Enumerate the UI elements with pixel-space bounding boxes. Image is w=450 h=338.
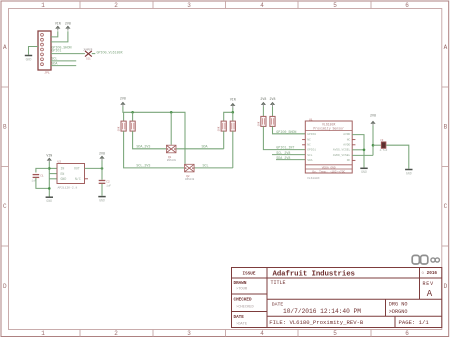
- svg-text:SCL_2V8: SCL_2V8: [276, 152, 290, 156]
- junction: [363, 149, 366, 152]
- svg-text:2: 2: [114, 330, 118, 337]
- svg-text:SCL: SCL: [203, 165, 209, 169]
- svg-text:Proximity Sensor: Proximity Sensor: [313, 126, 344, 130]
- svg-text:6: 6: [405, 2, 409, 9]
- svg-text:1: 1: [41, 330, 45, 337]
- supply 2V8: [370, 114, 376, 126]
- svg-text:SDA_3V3: SDA_3V3: [136, 146, 150, 150]
- wire AVSS pin: [352, 149, 364, 151]
- wire jumper net right: [92, 53, 96, 55]
- svg-text:AVSS_VCSEL: AVSS_VCSEL: [333, 149, 351, 152]
- connector JP1 box: [38, 31, 51, 74]
- wire R1 top stem: [123, 112, 125, 121]
- svg-text:SDA_2V8: SDA_2V8: [276, 157, 290, 161]
- supply VIN: [46, 153, 52, 162]
- svg-text:2V8: 2V8: [65, 21, 71, 25]
- svg-text:Adafruit Industries: Adafruit Industries: [273, 270, 355, 278]
- svg-text:C1: C1: [40, 175, 44, 178]
- svg-text:VIN: VIN: [46, 153, 52, 157]
- svg-text:C: C: [3, 203, 7, 210]
- svg-text:FILE: VL6180_Proximity_REV-B: FILE: VL6180_Proximity_REV-B: [269, 319, 364, 326]
- wire 2V8 stem: [372, 126, 374, 156]
- svg-text:2V8: 2V8: [370, 114, 376, 118]
- wire cap rail left: [373, 144, 381, 146]
- svg-text:10K: 10K: [257, 121, 260, 126]
- title block: [232, 255, 442, 327]
- supply VIN: [55, 21, 61, 30]
- svg-text:EN: EN: [61, 172, 65, 176]
- wire SCL net: [51, 60, 76, 62]
- svg-text:SDA: SDA: [307, 159, 312, 162]
- svg-text:>CHECKED: >CHECKED: [236, 304, 254, 309]
- wire GPIO1 net: [263, 126, 305, 149]
- transistor Q1: [166, 145, 176, 162]
- wire pin3 to ground: [29, 47, 39, 55]
- wire R2 top stem: [132, 112, 134, 121]
- wire C2 bottom: [101, 184, 103, 196]
- svg-text:GPIO0: GPIO0: [307, 133, 316, 136]
- svg-text:1: 1: [41, 2, 45, 9]
- junction: [372, 144, 375, 147]
- svg-text:VIN: VIN: [230, 98, 236, 102]
- svg-text:2: 2: [114, 2, 118, 9]
- svg-text:AVDD_VCSEL: AVDD_VCSEL: [333, 154, 351, 157]
- svg-text:PAGE: 1/1: PAGE: 1/1: [399, 319, 430, 326]
- svg-text:GPIO1_INT: GPIO1_INT: [276, 147, 294, 151]
- supply 2V8: [120, 96, 126, 106]
- wire SDA_3V3 net: [133, 131, 166, 149]
- solder jumper SJ1: [85, 51, 92, 61]
- ground: [405, 170, 412, 176]
- svg-text:GND: GND: [361, 170, 367, 174]
- svg-text:GND: GND: [99, 199, 105, 203]
- pin stub N/C: [85, 178, 89, 180]
- logo OO-infinity: [412, 255, 439, 264]
- svg-text:NC: NC: [347, 138, 351, 141]
- wire AVDD_VCSEL pin to 2V8 stem: [352, 154, 373, 156]
- svg-text:4: 4: [260, 2, 264, 9]
- resistor R3: [257, 116, 266, 126]
- svg-text:5: 5: [333, 330, 337, 337]
- capacitor C3: [380, 139, 388, 152]
- svg-text:GPIO0_VL6180X: GPIO0_VL6180X: [97, 51, 123, 55]
- svg-text:U2: U2: [58, 160, 62, 163]
- regulator U2: [57, 160, 88, 189]
- svg-text:TITLE: TITLE: [271, 280, 286, 286]
- wire IN pin: [49, 167, 57, 169]
- svg-text:DATE: DATE: [272, 301, 284, 307]
- junction: [232, 111, 235, 114]
- svg-text:SCL: SCL: [307, 154, 312, 157]
- svg-text:A: A: [427, 289, 433, 299]
- svg-text:SDA: SDA: [51, 63, 57, 67]
- svg-text:GPIO0_SHDN: GPIO0_SHDN: [276, 131, 296, 135]
- svg-text:SDA: SDA: [202, 146, 208, 150]
- svg-text:10K: 10K: [218, 126, 221, 131]
- svg-text:3: 3: [187, 2, 191, 9]
- supply 2V8: [99, 151, 105, 160]
- svg-text:IN: IN: [61, 167, 65, 171]
- svg-text:2V8: 2V8: [270, 97, 276, 101]
- wire 2V8 rail: [123, 107, 185, 164]
- svg-text:CHECKED: CHECKED: [234, 297, 252, 302]
- svg-text:A: A: [3, 44, 7, 51]
- svg-text:GPIO1: GPIO1: [51, 50, 61, 54]
- svg-text:5: 5: [333, 2, 337, 9]
- ground: [98, 197, 105, 203]
- svg-text:A: A: [444, 44, 448, 51]
- junction: [170, 111, 173, 114]
- capacitor C1: [32, 175, 44, 183]
- sensor U1: [302, 119, 355, 180]
- resistor R5: [218, 121, 227, 131]
- svg-text:1uF: 1uF: [106, 184, 111, 187]
- supply 2V8 (R4): [270, 97, 276, 107]
- svg-text:SCL: SCL: [51, 58, 57, 62]
- wire pin2 to 2V8: [51, 31, 68, 42]
- svg-text:VIN: VIN: [55, 21, 61, 25]
- junction: [48, 167, 51, 170]
- wire SCL net: [195, 167, 233, 169]
- ground: [46, 197, 53, 203]
- wire C1 bottom: [36, 178, 49, 189]
- wire VIN vertical: [48, 162, 50, 196]
- svg-text:C3: C3: [380, 139, 384, 142]
- svg-text:VL6180X: VL6180X: [307, 177, 320, 180]
- capacitor C2: [99, 180, 112, 187]
- supply 2V8 (R3): [260, 97, 266, 107]
- pin stubs right: [302, 140, 355, 161]
- wire GND pin: [49, 178, 57, 180]
- svg-text:>DATE: >DATE: [236, 322, 248, 327]
- supply VIN: [230, 98, 236, 108]
- wire R4 top stem: [272, 107, 274, 117]
- wire R5 bottom stem: [223, 131, 225, 149]
- wire VIN rail: [224, 108, 233, 121]
- svg-text:DATE: DATE: [234, 315, 245, 320]
- wire GPIO0 net: [273, 126, 306, 133]
- resistor R2: [130, 121, 135, 131]
- svg-text:AVDD: AVDD: [343, 144, 350, 147]
- svg-text:BSS138: BSS138: [185, 178, 195, 181]
- svg-text:C2: C2: [106, 180, 110, 183]
- svg-text:GND: GND: [406, 171, 412, 175]
- wire SCL net: [272, 154, 305, 156]
- transistor Q2: [185, 164, 195, 181]
- svg-text:N/C: N/C: [75, 177, 81, 181]
- wire SDA net: [51, 65, 76, 67]
- svg-text:2V8: 2V8: [260, 97, 266, 101]
- svg-text:B: B: [3, 124, 7, 131]
- wire cap rail right to ground: [386, 145, 409, 169]
- wire AVDD pin1: [352, 135, 364, 168]
- svg-text:D: D: [3, 283, 7, 290]
- svg-text:>DRGNO: >DRGNO: [389, 309, 408, 315]
- svg-text:SJ1: SJ1: [86, 58, 91, 61]
- svg-text:GND: GND: [46, 199, 52, 203]
- svg-text:GND: GND: [26, 57, 32, 61]
- svg-text:GND: GND: [61, 177, 67, 181]
- svg-text:○ 2016: ○ 2016: [422, 271, 438, 276]
- wire SDA net: [276, 159, 305, 161]
- svg-text:4: 4: [260, 330, 264, 337]
- svg-text:4.7uF: 4.7uF: [380, 149, 388, 152]
- svg-text:AP2112K-2.8: AP2112K-2.8: [58, 187, 78, 190]
- wire C1 top: [36, 168, 49, 172]
- junction: [101, 167, 104, 170]
- svg-text:6: 6: [405, 330, 409, 337]
- wire to 2V8 supply: [101, 160, 103, 168]
- wire SDA net: [176, 148, 223, 150]
- svg-text:B: B: [444, 124, 448, 131]
- svg-text:OUT: OUT: [74, 167, 80, 171]
- wire Q1 gate: [170, 112, 172, 145]
- wire R6 top stem: [232, 112, 234, 121]
- svg-text:NC: NC: [347, 159, 351, 162]
- svg-text:ISSUE: ISSUE: [243, 272, 256, 277]
- svg-text:AVDD: AVDD: [343, 133, 350, 136]
- ground: [360, 168, 367, 174]
- wire to C2: [101, 168, 103, 179]
- svg-text:>TOUR: >TOUR: [236, 287, 248, 292]
- svg-text:10K: 10K: [118, 126, 121, 131]
- wire R3 top stem: [262, 107, 264, 117]
- svg-text:SCL_3V3: SCL_3V3: [136, 165, 150, 169]
- svg-text:NC: NC: [307, 144, 311, 147]
- wire R6 bottom stem: [232, 131, 234, 168]
- svg-text:BSS138: BSS138: [167, 159, 177, 162]
- svg-text:C: C: [444, 203, 448, 210]
- svg-text:JP1: JP1: [44, 71, 50, 74]
- supply 2V8: [65, 21, 71, 30]
- wire pin1 to VIN: [51, 31, 58, 37]
- junction: [48, 187, 51, 190]
- svg-text:DRG NO: DRG NO: [389, 302, 408, 308]
- wire jumper net left: [51, 53, 85, 55]
- ground: [25, 56, 32, 62]
- junction: [131, 111, 134, 114]
- svg-text:3: 3: [187, 330, 191, 337]
- svg-text:REV: REV: [423, 281, 434, 287]
- svg-text:2V8: 2V8: [120, 96, 126, 100]
- wire EN pin: [49, 173, 57, 175]
- resistor R4: [270, 116, 275, 126]
- svg-text:NC: NC: [307, 138, 311, 141]
- wire SCL_3V3 net: [124, 131, 184, 168]
- svg-text:Op. Temp: -10C~+70C: Op. Temp: -10C~+70C: [312, 170, 345, 173]
- svg-text:10/7/2016 12:14:40 PM: 10/7/2016 12:14:40 PM: [283, 308, 361, 315]
- svg-text:DRAWN: DRAWN: [234, 281, 247, 286]
- resistor R1: [118, 121, 127, 131]
- svg-text:D: D: [444, 283, 448, 290]
- resistor R6: [230, 121, 235, 131]
- svg-text:GPIO1: GPIO1: [307, 149, 316, 152]
- wire OUT net: [85, 167, 103, 169]
- svg-text:2V8: 2V8: [99, 151, 105, 155]
